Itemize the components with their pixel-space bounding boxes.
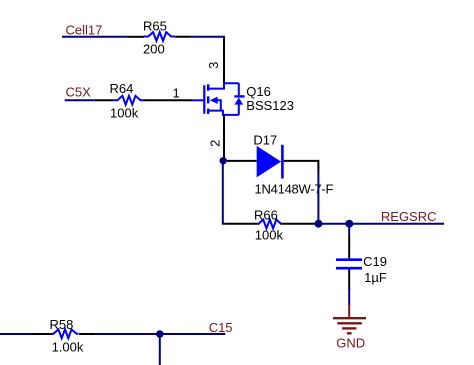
- wire junction down to R66: [223, 161, 226, 224]
- svg-text:2: 2: [208, 140, 223, 147]
- ground GND power port: [333, 304, 366, 350]
- wire R66 node to REGSRC: [319, 223, 445, 225]
- svg-text:C5X: C5X: [66, 84, 92, 99]
- wire C5X to R64: [65, 99, 95, 101]
- resistor R65: [129, 18, 192, 56]
- node at C15 tap: [156, 330, 164, 338]
- svg-text:100k: 100k: [110, 105, 139, 120]
- svg-text:Cell17: Cell17: [66, 22, 103, 37]
- svg-text:R66: R66: [254, 207, 278, 222]
- resistor R66: [226, 207, 319, 242]
- svg-text:1µF: 1µF: [364, 270, 387, 285]
- svg-text:100k: 100k: [255, 228, 284, 243]
- svg-text:R58: R58: [50, 317, 74, 332]
- svg-text:3: 3: [206, 62, 221, 69]
- wire node down to bottom edge: [159, 334, 161, 365]
- pin 3 of Q16 (drain): [223, 39, 225, 84]
- node junction at Q16 source: [220, 157, 227, 164]
- node at R66 output: [315, 220, 323, 228]
- transistor Q16: [192, 83, 295, 115]
- resistor R64: [94, 81, 191, 120]
- diode D17: [227, 132, 333, 196]
- svg-text:R65: R65: [143, 18, 167, 33]
- resistor R58: [34, 317, 95, 354]
- svg-text:D17: D17: [253, 132, 277, 147]
- wire node down to C19: [348, 224, 350, 236]
- wire R58 to C15: [95, 333, 225, 335]
- svg-text:200: 200: [143, 42, 165, 57]
- wire R65 to Q16 drain: [191, 37, 224, 39]
- capacitor C19: [336, 235, 387, 290]
- wire D17 cathode down to node: [317, 160, 319, 172]
- svg-text:R64: R64: [110, 81, 134, 96]
- wire C19 to GND: [348, 289, 350, 305]
- svg-text:REGSRC: REGSRC: [381, 209, 437, 224]
- svg-text:GND: GND: [336, 336, 365, 351]
- pin 2 of Q16 (source): [223, 115, 225, 161]
- svg-text:1: 1: [173, 85, 180, 100]
- wire left edge to R58: [0, 333, 34, 335]
- svg-text:1.00k: 1.00k: [52, 339, 84, 354]
- svg-text:1N4148W-7-F: 1N4148W-7-F: [255, 181, 334, 196]
- svg-text:Q16: Q16: [246, 84, 271, 99]
- svg-text:BSS123: BSS123: [246, 98, 294, 113]
- wire Cell17 to R65: [62, 36, 129, 38]
- node at C19 tap: [345, 220, 353, 228]
- svg-text:C15: C15: [209, 320, 233, 335]
- svg-text:C19: C19: [363, 254, 387, 269]
